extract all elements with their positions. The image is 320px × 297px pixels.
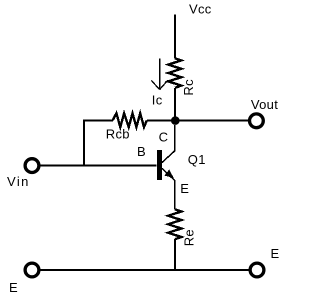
svg-text:E: E xyxy=(9,280,18,295)
svg-text:E: E xyxy=(180,181,189,196)
transistor Q1 base bar xyxy=(157,150,162,180)
transistor Q1 emitter lead xyxy=(162,168,175,209)
node collector junction xyxy=(171,116,180,125)
terminal Vin xyxy=(25,159,39,173)
wire collector node to Vout xyxy=(175,119,248,121)
resistor Re xyxy=(168,209,181,239)
resistor Rcb xyxy=(113,113,147,127)
wire feedback left segment xyxy=(84,119,113,121)
current arrow Ic xyxy=(151,59,168,90)
wire Re to bottom rail xyxy=(174,239,176,270)
terminal Vout xyxy=(250,114,264,128)
svg-text:Rcb: Rcb xyxy=(106,127,130,142)
wire Vcc rail to Rc xyxy=(174,15,176,59)
wire feedback vertical down to base net xyxy=(83,120,85,166)
svg-text:B: B xyxy=(137,144,146,159)
svg-text:Vcc: Vcc xyxy=(189,2,212,17)
svg-text:Re: Re xyxy=(182,229,197,246)
svg-text:Ic: Ic xyxy=(152,92,163,107)
svg-text:Q1: Q1 xyxy=(188,152,206,167)
svg-text:Rc: Rc xyxy=(181,79,196,96)
svg-text:E: E xyxy=(271,246,280,261)
bottom rail wire xyxy=(41,269,250,271)
svg-text:C: C xyxy=(159,129,169,144)
wire Rcb to collector node xyxy=(147,119,175,121)
resistor Rc xyxy=(168,58,181,88)
wire Rc to collector node xyxy=(174,88,176,118)
svg-text:Vout: Vout xyxy=(251,97,278,112)
transistor Q1 collector lead xyxy=(162,125,175,163)
terminal E bottom-right xyxy=(250,263,264,277)
svg-text:Vin: Vin xyxy=(7,174,30,189)
wire Vin to base xyxy=(41,164,157,166)
transistor Q1 emitter arrowhead xyxy=(164,170,174,178)
terminal E bottom-left xyxy=(25,263,39,277)
